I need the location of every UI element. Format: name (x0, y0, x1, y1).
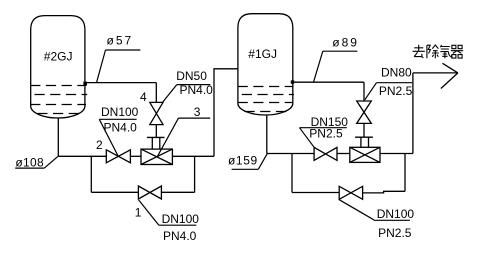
main pipe left group segment C (172, 155, 214, 157)
glyph 器 (451, 45, 463, 58)
stem below valve 4 (155, 125, 157, 138)
glyph 去 (413, 45, 425, 58)
svg-text:ø57: ø57 (107, 33, 134, 47)
main pipe left group segment B (130, 155, 141, 157)
bypass right riser (left group) (194, 156, 196, 192)
label ø159 (228, 153, 267, 169)
glyph 除 (427, 45, 439, 58)
tank #2GJ (31, 16, 85, 118)
bypass pipe right segment (left group) (161, 191, 194, 193)
main pipe right group segment C (380, 153, 413, 155)
svg-text:DN100: DN100 (101, 105, 139, 119)
flange bar (left actuator) (147, 136, 165, 138)
stem below valve DN80 (363, 123, 365, 137)
svg-text:DN80: DN80 (381, 66, 412, 80)
svg-text:PN4.0: PN4.0 (180, 83, 214, 97)
label DN80 PN2.5 for valve DN80 (365, 66, 413, 100)
main pipe left group segment A (58, 155, 106, 157)
label 去除氧器 (to deaerator) hand-drawn glyphs (413, 45, 464, 59)
bypass left riser (left group) (90, 156, 92, 192)
junction dot at tank #2GJ outlet (83, 82, 87, 86)
svg-text:PN2.5: PN2.5 (378, 226, 412, 240)
bypass right riser (right group) (404, 154, 406, 192)
tank #1GJ (238, 14, 293, 115)
svg-text:DN100: DN100 (162, 212, 200, 226)
label ø108 (15, 155, 58, 169)
control valve 3 body (141, 149, 172, 164)
tank #1GJ liquid level dashes (238, 87, 294, 112)
label ø57 (97, 33, 141, 82)
pipe vertical to valve 4 (155, 83, 157, 103)
control valve body (right) (350, 147, 380, 162)
junction dot at tank #1GJ outlet (291, 80, 294, 83)
bypass pipe left segment (left group) (91, 191, 138, 193)
svg-text:2: 2 (96, 138, 103, 152)
flange bar (right actuator) (355, 136, 373, 138)
valve 2 (106, 150, 130, 163)
tank #2GJ drain pipe (57, 118, 59, 156)
svg-text:3: 3 (194, 105, 201, 119)
svg-text:PN2.5: PN2.5 (309, 126, 343, 140)
pipe vertical to valve DN80 (363, 82, 365, 101)
svg-text:PN4.0: PN4.0 (163, 229, 197, 243)
riser pipe to tank #1GJ inlet (214, 69, 238, 157)
bypass left riser (right group) (291, 154, 293, 193)
arrow to deaerator (413, 63, 458, 88)
neck (right actuator) (361, 137, 369, 147)
pipe ø89 from tank #1GJ outlet (293, 81, 364, 83)
valve 4 (150, 102, 163, 124)
label ø89 (314, 35, 359, 82)
svg-text:DN50: DN50 (176, 69, 207, 83)
pipe ø57 from tank #2GJ outlet (85, 82, 156, 84)
svg-text:DN100: DN100 (377, 207, 415, 221)
valve DN80 (357, 101, 372, 123)
svg-text:ø159: ø159 (228, 153, 258, 167)
bypass pipe left segment (right group) (292, 192, 339, 194)
tank #2GJ liquid level dashes (30, 86, 87, 114)
label DN100 PN4.0 for valve 2 (99, 105, 138, 156)
svg-text:1: 1 (135, 205, 142, 219)
label DN100 PN4.0 for valve 1 (139, 200, 200, 243)
neck (left actuator) (152, 137, 160, 149)
main pipe right group segment A (267, 153, 314, 155)
main pipe right group segment B (337, 153, 350, 155)
svg-text:PN4.0: PN4.0 (104, 121, 138, 135)
bypass valve (right group) (339, 186, 362, 199)
glyph 氧 (440, 45, 452, 58)
label 3 (157, 105, 210, 157)
svg-text:ø89: ø89 (332, 35, 359, 49)
svg-text:PN2.5: PN2.5 (379, 84, 413, 98)
bypass pipe right segment with jog (right group) (363, 191, 405, 193)
label DN100 PN2.5 for bypass valve (right group) (339, 200, 414, 240)
riser pipe to deaerator arrow (412, 73, 414, 154)
valve 1 (138, 186, 161, 199)
tank #1GJ drain pipe (266, 116, 268, 154)
valve DN150 (314, 147, 337, 160)
label DN150 PN2.5 for valve DN150 (300, 115, 349, 148)
svg-text:4: 4 (140, 90, 147, 104)
svg-text:ø108: ø108 (15, 155, 44, 169)
svg-text:#1GJ: #1GJ (248, 47, 277, 61)
svg-text:#2GJ: #2GJ (44, 50, 73, 64)
label DN50 PN4.0 for valve 4 (163, 69, 214, 102)
